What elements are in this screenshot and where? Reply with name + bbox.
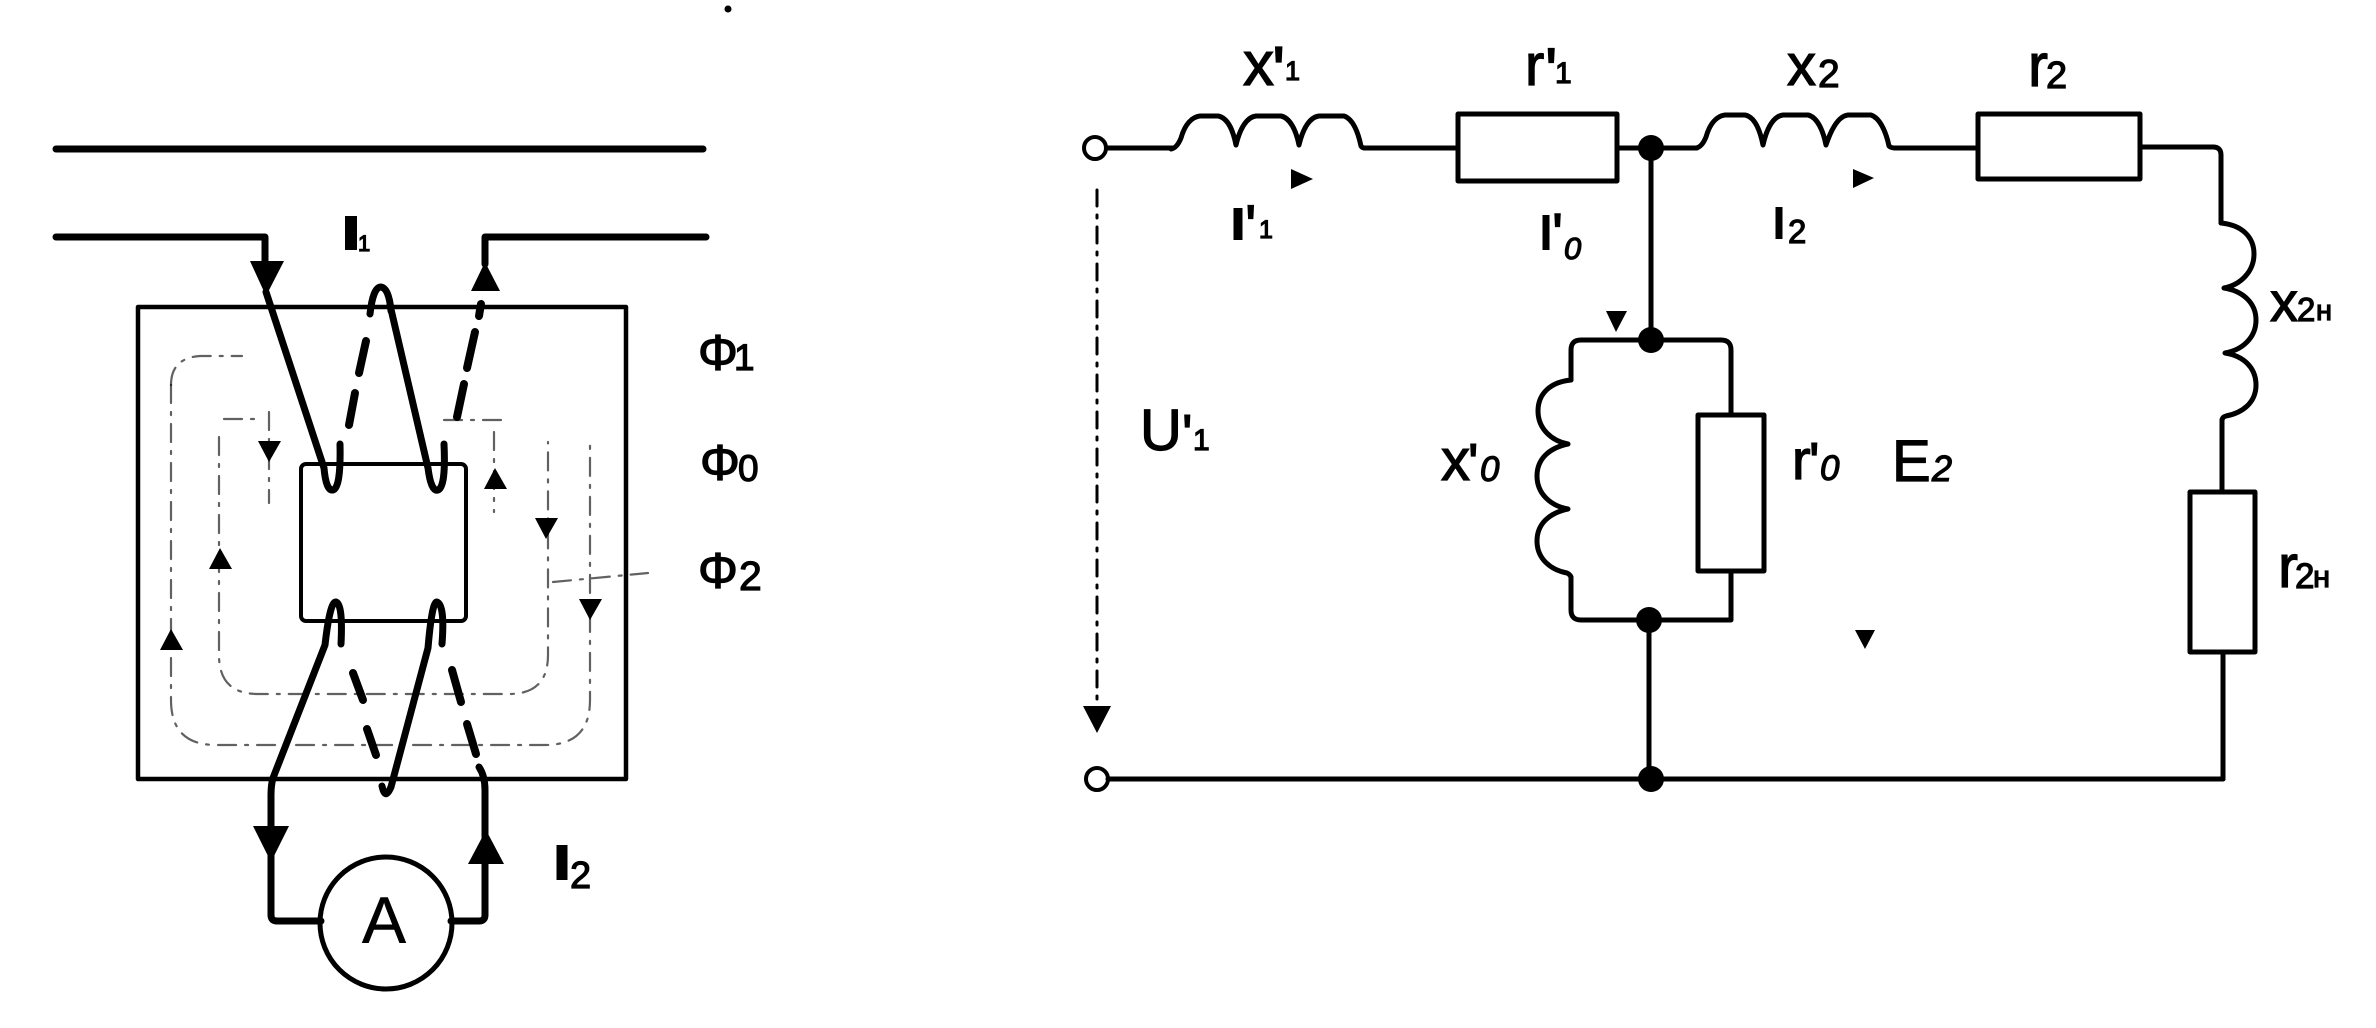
svg-text:2: 2 [1788,213,1806,250]
svg-text:0: 0 [738,448,759,489]
svg-text:2: 2 [2297,291,2315,328]
svg-text:x: x [1441,428,1470,493]
svg-text:Φ: Φ [700,435,740,491]
svg-text:x: x [1243,30,1274,99]
svg-text:': ' [1182,403,1193,465]
svg-text:': ' [1245,193,1256,260]
svg-text:x: x [1787,33,1816,98]
svg-text:0: 0 [1480,450,1500,489]
svg-text:2: 2 [739,553,762,599]
svg-text:': ' [1809,431,1820,493]
svg-text:1: 1 [1193,424,1210,457]
svg-text:2: 2 [1818,53,1840,96]
svg-text:': ' [1272,32,1285,110]
svg-text:1: 1 [734,337,755,378]
svg-text:1: 1 [1555,57,1572,90]
svg-text:r: r [1792,428,1811,491]
svg-text:': ' [1552,202,1563,267]
svg-text:2: 2 [2046,55,2067,97]
svg-text:1: 1 [1259,216,1273,244]
svg-text:': ' [1468,432,1479,494]
svg-text:2: 2 [2295,557,2314,596]
svg-text:1: 1 [1285,56,1300,86]
svg-text:0: 0 [1564,231,1581,266]
svg-text:Φ: Φ [698,543,738,599]
svg-text:н: н [2316,295,2332,327]
svg-text:0: 0 [1820,449,1840,488]
svg-text:r: r [2028,32,2048,99]
svg-text:1: 1 [358,231,370,256]
svg-text:E: E [1892,429,1931,494]
svg-text:r: r [1525,33,1544,98]
svg-text:Φ: Φ [698,325,738,381]
svg-text:н: н [2313,559,2330,594]
svg-text:A: A [362,883,406,957]
svg-text:x: x [2270,270,2298,333]
svg-text:U: U [1140,398,1182,463]
svg-text:2: 2 [570,855,591,897]
svg-text:2: 2 [1931,448,1952,489]
